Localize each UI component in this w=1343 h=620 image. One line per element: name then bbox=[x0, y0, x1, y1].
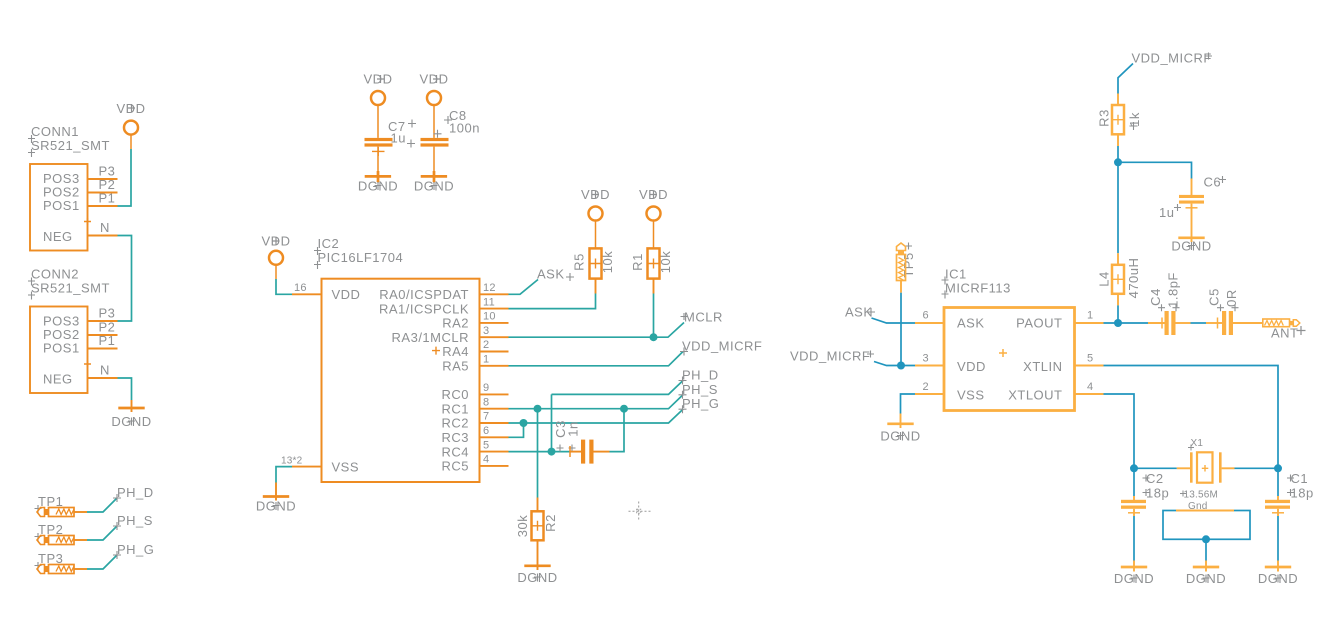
svg-text:RC2: RC2 bbox=[441, 416, 469, 431]
svg-text:RA2: RA2 bbox=[442, 316, 469, 331]
svg-text:ANT: ANT bbox=[1271, 326, 1299, 341]
svg-text:PH_D: PH_D bbox=[117, 485, 154, 500]
svg-text:1u: 1u bbox=[391, 131, 406, 146]
svg-text:SR521_SMT: SR521_SMT bbox=[31, 281, 110, 296]
ground DGND (R2) bbox=[517, 566, 557, 585]
svg-text:6: 6 bbox=[923, 310, 929, 322]
supply VDD (above C8) bbox=[420, 72, 449, 138]
svg-text:P1: P1 bbox=[99, 191, 116, 206]
svg-text:RC4: RC4 bbox=[441, 444, 469, 459]
svg-text:1: 1 bbox=[1087, 310, 1093, 322]
svg-text:PH_G: PH_G bbox=[682, 396, 719, 411]
junction (R3/C6/L4) bbox=[1114, 158, 1122, 166]
wire VDD to IC2 pin 16 bbox=[276, 279, 292, 294]
svg-text:2: 2 bbox=[483, 339, 489, 351]
wire PAOUT chain bbox=[1104, 322, 1149, 324]
capacitor C4 1.8pF bbox=[1148, 272, 1191, 335]
wire RC2 PH_G bbox=[509, 409, 684, 423]
wire pin2 VSS to DGND bbox=[901, 394, 916, 414]
svg-text:XTLOUT: XTLOUT bbox=[1008, 388, 1062, 403]
svg-text:RA5: RA5 bbox=[442, 359, 469, 374]
ground DGND (C1) bbox=[1258, 561, 1298, 587]
svg-text:NEG: NEG bbox=[43, 372, 73, 387]
ground DGND (IC1 VSS) bbox=[880, 414, 920, 444]
svg-text:6: 6 bbox=[483, 425, 489, 437]
svg-text:8: 8 bbox=[483, 396, 489, 408]
svg-text:10: 10 bbox=[483, 311, 496, 323]
ground DGND (C2) bbox=[1114, 561, 1154, 587]
supply VDD (above R1) bbox=[639, 187, 668, 248]
svg-text:P3: P3 bbox=[99, 306, 116, 321]
wire RC4 PH_D bbox=[509, 381, 684, 452]
svg-text:9: 9 bbox=[483, 382, 489, 394]
svg-text:R1: R1 bbox=[630, 253, 645, 271]
wire TP2 to PH_S bbox=[87, 526, 117, 540]
svg-text:PH_S: PH_S bbox=[682, 382, 718, 397]
svg-text:RC3: RC3 bbox=[441, 430, 469, 445]
svg-text:P1: P1 bbox=[99, 333, 116, 348]
svg-text:IC1: IC1 bbox=[945, 267, 967, 282]
junction (RC1/C3) bbox=[620, 405, 628, 413]
supply VDD (left of IC2) bbox=[262, 234, 291, 280]
wire R1 to MCLR net bbox=[653, 294, 655, 338]
svg-text:0R: 0R bbox=[1224, 289, 1239, 307]
svg-text:PH_D: PH_D bbox=[682, 368, 719, 383]
resistor R3 1k bbox=[1097, 94, 1143, 147]
svg-text:C4: C4 bbox=[1148, 288, 1163, 306]
svg-text:C6: C6 bbox=[1204, 175, 1222, 190]
svg-text:NEG: NEG bbox=[43, 229, 73, 244]
junction (RC1/R2) bbox=[534, 405, 542, 413]
testpoint TP3 bbox=[35, 551, 88, 574]
svg-text:VDD_MICRF: VDD_MICRF bbox=[1132, 51, 1212, 66]
svg-text:XTLIN: XTLIN bbox=[1023, 359, 1062, 374]
svg-text:POS1: POS1 bbox=[43, 198, 80, 213]
net label VDD_MICRF (top) bbox=[1132, 51, 1213, 66]
junction (R1/MCLR) bbox=[650, 333, 658, 341]
wire R3 to junction bbox=[1117, 146, 1119, 162]
net label ASK (IC1) bbox=[845, 305, 875, 320]
IC IC1 MICRF113 bbox=[915, 267, 1104, 411]
svg-text:SR521_SMT: SR521_SMT bbox=[31, 138, 110, 153]
ground DGND (C7) bbox=[358, 171, 398, 194]
IC IC2 PIC16LF1704 bbox=[281, 236, 509, 482]
svg-text:13.56M: 13.56M bbox=[1184, 490, 1219, 501]
svg-text:RC5: RC5 bbox=[441, 459, 469, 474]
svg-text:100n: 100n bbox=[449, 121, 480, 136]
svg-text:RC1: RC1 bbox=[441, 401, 469, 416]
ground DGND (C6) bbox=[1171, 238, 1211, 254]
wire TP1 to PH_D bbox=[87, 498, 117, 512]
svg-text:3: 3 bbox=[483, 325, 489, 337]
junction (RC4) bbox=[548, 448, 556, 456]
wire pin1 VDD_MICRF bbox=[509, 352, 684, 366]
svg-text:PAOUT: PAOUT bbox=[1016, 316, 1062, 331]
testpoint TP5 bbox=[897, 243, 917, 293]
svg-text:PIC16LF1704: PIC16LF1704 bbox=[318, 250, 404, 265]
wire pin12 to ASK bbox=[509, 280, 539, 295]
svg-text:L4: L4 bbox=[1097, 271, 1112, 286]
testpoint TP2 bbox=[35, 522, 88, 545]
svg-text:VDD_MICRF: VDD_MICRF bbox=[682, 339, 762, 354]
svg-text:POS1: POS1 bbox=[43, 341, 80, 356]
svg-text:MICRF113: MICRF113 bbox=[945, 281, 1011, 296]
svg-text:1: 1 bbox=[483, 354, 489, 366]
capacitor C2 18p bbox=[1121, 471, 1169, 516]
wire TP5 to VDD_MICRF net bbox=[900, 293, 902, 366]
svg-text:R5: R5 bbox=[572, 253, 587, 271]
svg-text:RC0: RC0 bbox=[441, 387, 469, 402]
svg-text:12: 12 bbox=[483, 282, 496, 294]
capacitor C5 0R bbox=[1206, 288, 1262, 335]
svg-text:R3: R3 bbox=[1097, 109, 1112, 127]
ground DGND (conn2) bbox=[111, 400, 151, 429]
wire CONN1 NEG to CONN2 P3 bbox=[118, 236, 132, 322]
svg-text:1k: 1k bbox=[1127, 112, 1142, 127]
svg-text:CONN1: CONN1 bbox=[31, 124, 79, 139]
wire C4 to C5 bbox=[1191, 322, 1207, 324]
supply VDD (top-left) bbox=[117, 101, 146, 149]
svg-text:16: 16 bbox=[294, 282, 307, 294]
connector CONN1 bbox=[28, 124, 118, 251]
capacitor C6 1u bbox=[1159, 175, 1226, 238]
supply VDD (above R5) bbox=[581, 187, 610, 248]
svg-text:RA4: RA4 bbox=[442, 344, 469, 359]
svg-text:1u: 1u bbox=[1159, 205, 1174, 220]
svg-text:4: 4 bbox=[483, 454, 489, 466]
wire Gnd plane to DGND bbox=[1205, 539, 1207, 560]
svg-text:N: N bbox=[100, 220, 110, 235]
wire ASK to pin6 bbox=[872, 318, 916, 323]
wire C3 to RC1 net bbox=[610, 409, 625, 452]
svg-text:CONN2: CONN2 bbox=[31, 267, 79, 282]
resistor R1 10k bbox=[630, 248, 673, 293]
junction (Gnd plane) bbox=[1202, 535, 1210, 543]
svg-text:C5: C5 bbox=[1207, 288, 1222, 306]
wire junction to L4 bbox=[1117, 162, 1119, 253]
Gnd plane outline bbox=[1163, 501, 1250, 539]
svg-text:RA0/ICSPDAT: RA0/ICSPDAT bbox=[379, 287, 469, 302]
ground DGND (C8) bbox=[414, 171, 454, 194]
wire junction to C6 bbox=[1118, 162, 1192, 178]
wire XTLOUT to crystal left bbox=[1104, 394, 1135, 468]
svg-text:1.8pF: 1.8pF bbox=[1166, 272, 1181, 308]
svg-text:VDD: VDD bbox=[957, 359, 986, 374]
wire VDD to CONN1 P1 bbox=[118, 149, 132, 206]
wire pin11 to R5 bbox=[509, 294, 596, 309]
svg-text:11: 11 bbox=[483, 296, 495, 308]
wire XTLIN to crystal right bbox=[1104, 366, 1279, 469]
svg-text:VSS: VSS bbox=[332, 459, 360, 474]
capacitor C1 18p bbox=[1265, 471, 1314, 516]
svg-text:30k: 30k bbox=[515, 515, 530, 537]
net label VDD_MICRF (IC1) bbox=[790, 349, 874, 364]
svg-text:N: N bbox=[100, 363, 110, 378]
wire C2 to crystal net bbox=[1133, 468, 1135, 496]
resistor R2 30k bbox=[515, 498, 558, 566]
svg-text:2: 2 bbox=[923, 381, 929, 393]
wire IC2 VSS to DGND bbox=[276, 467, 292, 483]
capacitor C3 1n bbox=[553, 420, 610, 463]
svg-text:IC2: IC2 bbox=[318, 236, 340, 251]
connector CONN2 bbox=[28, 267, 118, 394]
antenna ANT bbox=[1263, 319, 1306, 341]
net label ASK bbox=[537, 267, 574, 282]
svg-text:1n: 1n bbox=[566, 421, 581, 436]
svg-text:PH_S: PH_S bbox=[117, 513, 153, 528]
wire pin3 MCLR bbox=[509, 323, 685, 338]
svg-text:5: 5 bbox=[1087, 353, 1093, 365]
inductor L4 470uH bbox=[1097, 253, 1142, 305]
capacitor C7 bbox=[365, 119, 417, 176]
net label MCLR bbox=[681, 310, 723, 325]
resistor R5 10k bbox=[572, 248, 616, 293]
svg-text:VDD: VDD bbox=[332, 287, 361, 302]
wire C2 to DGND bbox=[1133, 516, 1135, 561]
crystal X1 13.56M bbox=[1177, 438, 1235, 501]
svg-text:5: 5 bbox=[483, 439, 489, 451]
svg-text:RA1/ICSPCLK: RA1/ICSPCLK bbox=[379, 301, 469, 316]
svg-text:7: 7 bbox=[483, 411, 489, 423]
wire CONN2 NEG to DGND bbox=[118, 378, 132, 400]
wire RC1 PH_S bbox=[509, 395, 684, 409]
wire VDD_MICRF to pin3 bbox=[874, 362, 915, 366]
svg-text:MCLR: MCLR bbox=[684, 310, 723, 325]
svg-text:13*2: 13*2 bbox=[281, 456, 303, 467]
net label VDD_MICRF (pin1) bbox=[680, 339, 762, 356]
svg-text:3: 3 bbox=[923, 353, 929, 365]
ground DGND (IC2 VSS) bbox=[256, 483, 296, 514]
svg-text:R2: R2 bbox=[543, 514, 558, 532]
wire C1 to crystal net bbox=[1277, 468, 1279, 496]
wire RC3 to RC2 bbox=[509, 423, 524, 437]
svg-text:RA3/1MCLR: RA3/1MCLR bbox=[392, 330, 469, 345]
svg-text:4: 4 bbox=[1087, 381, 1093, 393]
junction (XTLOUT/X1/C2) bbox=[1130, 464, 1138, 472]
junction (PAOUT/L4) bbox=[1114, 319, 1122, 327]
svg-text:ASK: ASK bbox=[957, 316, 985, 331]
wire C1 to DGND bbox=[1277, 516, 1279, 561]
mouse crosshair cursor bbox=[629, 502, 651, 521]
svg-text:Gnd: Gnd bbox=[1188, 501, 1208, 512]
junction (TP5/VDD_MICRF) bbox=[897, 362, 905, 370]
testpoint TP1 bbox=[35, 494, 88, 517]
capacitor C8 bbox=[421, 108, 480, 176]
wire VDD_MICRF to R3 bbox=[1118, 64, 1133, 94]
junction (RC2/RC3) bbox=[520, 419, 528, 427]
wire R2 to RC1 net bbox=[537, 409, 539, 498]
wire TP3 to PH_G bbox=[87, 555, 117, 569]
junction (XTLIN/X1/C1) bbox=[1274, 464, 1282, 472]
svg-text:PH_G: PH_G bbox=[117, 542, 154, 557]
svg-text:VDD_MICRF: VDD_MICRF bbox=[790, 349, 870, 364]
svg-text:VSS: VSS bbox=[957, 388, 985, 403]
svg-text:ASK: ASK bbox=[537, 267, 565, 282]
svg-text:470uH: 470uH bbox=[1126, 258, 1141, 299]
wire crystal net bbox=[1134, 467, 1278, 469]
supply VDD (above C7) bbox=[364, 72, 393, 138]
wire L4 to PAOUT net bbox=[1117, 305, 1119, 323]
ground DGND (Gnd plane) bbox=[1186, 561, 1226, 587]
